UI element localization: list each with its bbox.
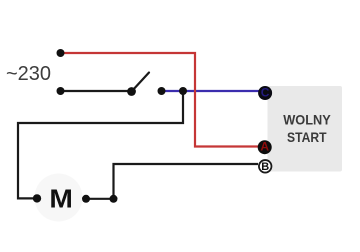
switch S1 blade bbox=[132, 73, 150, 92]
terminal B (screw) bbox=[259, 160, 272, 173]
wire branch from node to motor bbox=[18, 91, 183, 198]
wire red phase: top run, drop, run to A bbox=[61, 53, 259, 147]
node blue wire start dot bbox=[158, 87, 166, 95]
svg-text:M: M bbox=[49, 185, 73, 213]
svg-text:B: B bbox=[261, 161, 269, 173]
module box WOLNY START bbox=[268, 86, 343, 172]
terminal C (blue) bbox=[258, 85, 272, 100]
motor body M1 bbox=[35, 174, 83, 222]
wire motor to terminal B bbox=[86, 164, 258, 199]
node motor right terminal bbox=[82, 195, 90, 203]
node switch pivot dot bbox=[127, 87, 136, 96]
svg-text:A: A bbox=[260, 140, 269, 154]
node red source dot bbox=[57, 49, 65, 57]
svg-text:C: C bbox=[261, 85, 270, 99]
node junction blue/black bbox=[179, 87, 187, 95]
node motor left terminal bbox=[33, 194, 41, 202]
svg-text:START: START bbox=[287, 129, 327, 145]
label WOLNY START bbox=[283, 112, 331, 146]
node neutral source dot bbox=[57, 87, 65, 95]
wire neutral from source to switch bbox=[61, 90, 132, 92]
node corner to B wire bbox=[110, 195, 118, 203]
svg-text:~230: ~230 bbox=[6, 63, 51, 85]
svg-text:WOLNY: WOLNY bbox=[283, 112, 331, 128]
wire blue L to terminal C bbox=[162, 90, 263, 92]
terminal A (red) bbox=[258, 140, 272, 155]
